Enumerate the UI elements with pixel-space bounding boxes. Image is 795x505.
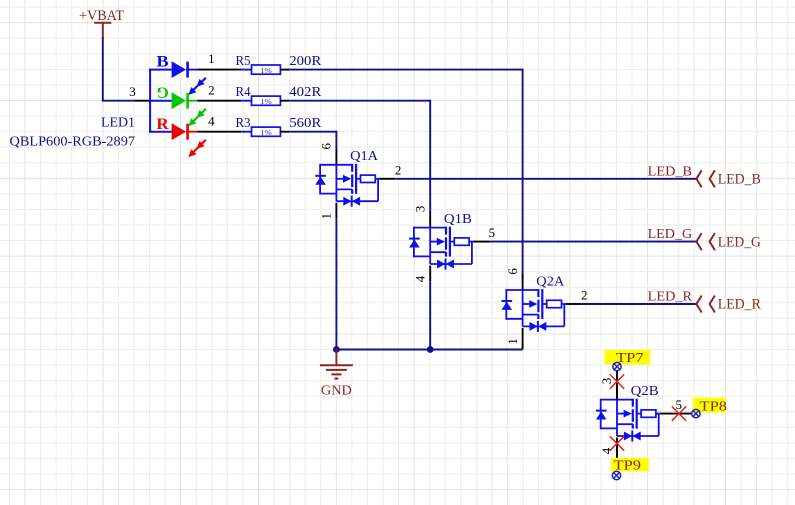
svg-text:R3: R3 bbox=[236, 116, 251, 131]
svg-text:1%: 1% bbox=[260, 129, 272, 137]
svg-text:Q2A: Q2A bbox=[536, 274, 565, 289]
wire Q2B gate pin 5 to TP8 bbox=[660, 413, 691, 415]
Q1B source pin wire to GND rail bbox=[429, 266, 431, 350]
svg-text:LED_R: LED_R bbox=[648, 290, 693, 305]
svg-text:1: 1 bbox=[208, 51, 215, 66]
resistor R3 560R bbox=[236, 116, 322, 137]
svg-text:LED1: LED1 bbox=[101, 115, 135, 130]
svg-text:5: 5 bbox=[675, 397, 682, 412]
svg-text:R: R bbox=[156, 116, 169, 133]
svg-text:3: 3 bbox=[599, 378, 614, 385]
svg-text:4: 4 bbox=[208, 113, 215, 128]
LED1 pin 3 bbox=[129, 84, 150, 101]
transistor Q2B bbox=[596, 378, 682, 455]
svg-text:560R: 560R bbox=[289, 116, 322, 131]
wire Q gate to port LED_R bbox=[566, 303, 698, 305]
no-ERC marker on Q2B pin 3 bbox=[610, 374, 624, 388]
wire Q2B source to TP9 bbox=[616, 438, 618, 472]
svg-text:TP8: TP8 bbox=[700, 399, 728, 414]
svg-text:LED_B: LED_B bbox=[648, 164, 693, 179]
LED1 comment QBLP600-RGB-2897 bbox=[10, 135, 136, 150]
svg-text:1%: 1% bbox=[260, 98, 272, 106]
wire +VBAT to LED1 pin 3 bbox=[102, 37, 135, 101]
junction at Q1B/GND bbox=[427, 346, 434, 353]
no-ERC marker on Q2B pin 5 bbox=[672, 406, 686, 420]
svg-text:6: 6 bbox=[505, 268, 520, 275]
test point TP9 bbox=[611, 458, 649, 480]
transistor Q1A bbox=[315, 142, 401, 219]
svg-text:Q1A: Q1A bbox=[350, 149, 379, 164]
svg-text:2: 2 bbox=[208, 82, 215, 97]
svg-text:LED_G: LED_G bbox=[648, 227, 693, 242]
ground GND bbox=[320, 350, 353, 399]
LED1 pin 2 bbox=[197, 82, 241, 100]
net label LED_R bbox=[648, 290, 693, 305]
wire Q gate to port LED_G bbox=[473, 241, 697, 243]
svg-text:1: 1 bbox=[505, 338, 520, 345]
svg-text:5: 5 bbox=[489, 225, 496, 240]
svg-text:1%: 1% bbox=[260, 67, 272, 75]
svg-text:Q1B: Q1B bbox=[444, 212, 472, 227]
svg-text:G: G bbox=[156, 83, 168, 100]
LED1 designator bbox=[101, 115, 135, 130]
net label LED_B bbox=[648, 164, 693, 179]
transistor Q1B bbox=[409, 206, 495, 283]
LED1 pin 1 bbox=[197, 51, 241, 69]
port LED_G bbox=[696, 233, 761, 250]
svg-text:1: 1 bbox=[319, 213, 334, 220]
svg-text:3: 3 bbox=[412, 206, 427, 213]
svg-text:402R: 402R bbox=[289, 85, 322, 100]
svg-text:2: 2 bbox=[395, 162, 402, 177]
wire R3 to Q1A drain column bbox=[289, 131, 336, 149]
port LED_B bbox=[696, 170, 760, 187]
svg-text:200R: 200R bbox=[289, 54, 322, 69]
resistor R5 200R bbox=[236, 54, 322, 75]
wire R4 to Q1B drain column bbox=[289, 100, 430, 213]
LED1 pin 4 bbox=[197, 113, 241, 131]
svg-text:Q2B: Q2B bbox=[631, 384, 659, 399]
wire R5 to Q2A drain column bbox=[289, 69, 522, 278]
net label LED_G bbox=[648, 227, 693, 242]
svg-text:QBLP600-RGB-2897: QBLP600-RGB-2897 bbox=[10, 135, 136, 150]
Q1A source pin wire to GND rail bbox=[335, 203, 337, 350]
LED1 blue LED (pins 3-1) bbox=[156, 54, 205, 95]
svg-text:B: B bbox=[156, 54, 168, 71]
wire TP7 to Q2B drain bbox=[616, 371, 618, 400]
svg-text:6: 6 bbox=[319, 142, 334, 149]
svg-text:LED_G: LED_G bbox=[718, 234, 761, 250]
no-ERC marker on Q2B pin 4 bbox=[610, 436, 624, 450]
wire Q gate to port LED_B bbox=[380, 178, 698, 180]
svg-text:R5: R5 bbox=[236, 54, 251, 69]
test point TP8 bbox=[692, 398, 727, 418]
svg-text:4: 4 bbox=[412, 275, 427, 282]
svg-text:3: 3 bbox=[129, 84, 136, 99]
port LED_R bbox=[696, 296, 761, 313]
power port +VBAT bbox=[79, 8, 124, 38]
svg-text:LED_R: LED_R bbox=[718, 297, 761, 313]
junction at Q1A/GND bbox=[333, 346, 340, 353]
svg-text:GND: GND bbox=[321, 383, 352, 398]
svg-text:LED_B: LED_B bbox=[718, 172, 761, 188]
resistor R4 402R bbox=[236, 85, 322, 106]
svg-text:R4: R4 bbox=[236, 85, 251, 100]
LED1 common anode bracket bbox=[149, 69, 172, 133]
LED1 red LED (pins 3-4) bbox=[156, 116, 205, 157]
svg-text:2: 2 bbox=[581, 288, 588, 303]
GND rail wire bbox=[336, 349, 522, 351]
Q2A source pin wire to GND rail bbox=[522, 328, 524, 350]
transistor Q2A bbox=[502, 268, 588, 345]
LED1 green LED (pins 3-2) bbox=[156, 83, 205, 126]
test point TP7 bbox=[605, 350, 651, 371]
